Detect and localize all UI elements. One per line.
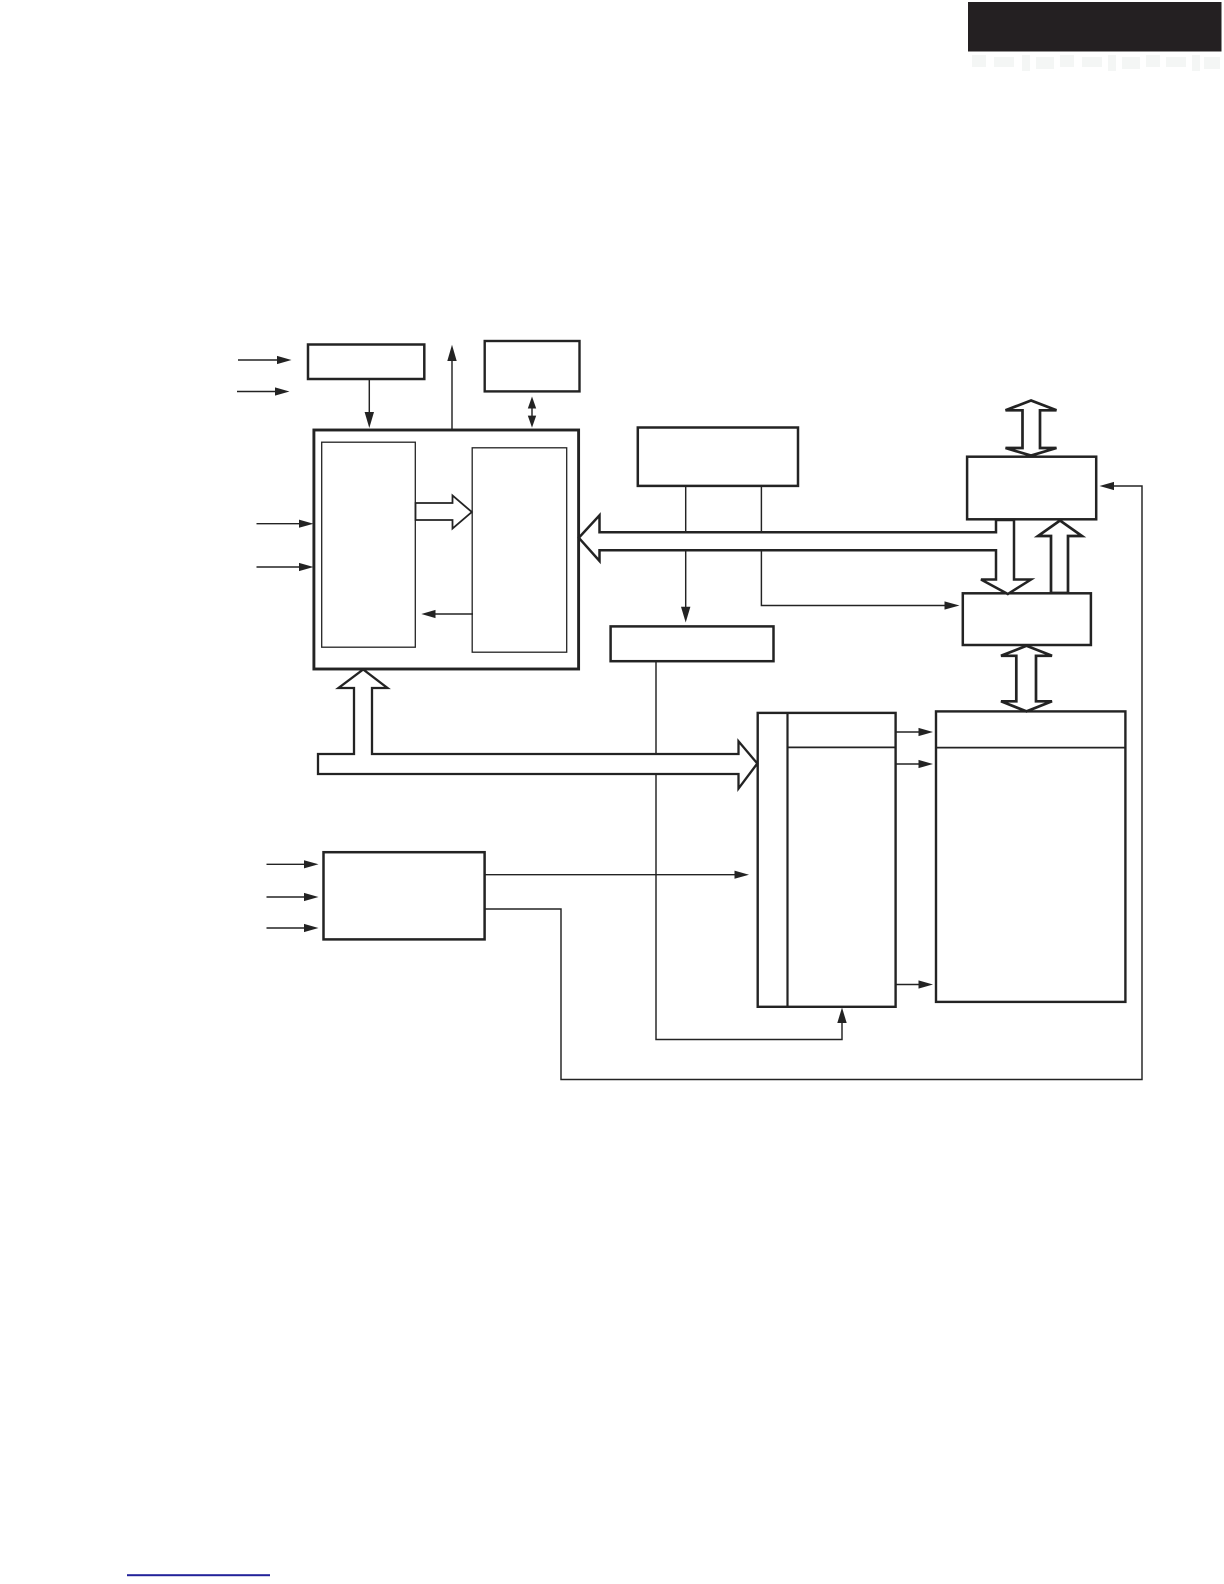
bus arrow upper (box C down to bus, left into big box) [579,515,1031,594]
arrowhead E to G 1 [919,728,934,736]
box E divider [786,713,788,1007]
wire loop from box M down around to box E bottom [656,661,842,1039]
wire inner arrow right box to left box [434,613,473,615]
inner box left [322,442,416,647]
wire input arrow 4 to big box [257,566,302,568]
arrowhead feedback into box C [1100,482,1115,490]
arrowhead double up (box B link) [528,397,536,409]
arrowhead box F to box E [735,871,750,879]
wire box A down to big box [368,379,370,413]
wire ROM line 1 down to box M [685,486,687,608]
wire box E to box G arrow 3 [896,984,921,986]
box C (top right) [967,457,1096,520]
box E (tall box bottom middle) [758,713,896,1007]
wire up out of big box top [451,361,453,430]
wire box F input 1 [267,863,307,865]
solid arrowheads [275,345,1114,1023]
wire box F input 3 [267,927,307,929]
wire box E to box G arrow 1 [896,731,921,733]
wire box F input 2 [267,896,307,898]
double block arrow above box C [1006,401,1057,456]
box E header line [788,746,896,748]
box B (top small box right of A) [485,341,580,391]
arrowhead box F input 3 [304,924,319,932]
wire box F output to box E [485,874,736,876]
box M (wide box under ROM) [611,626,774,661]
title block (black header bar) [968,2,1222,52]
wire double arrow between box B and big box [531,407,533,418]
box F (bottom left box) [324,852,485,939]
arrowhead down into big box from box A [365,412,374,428]
arrowhead up out of big box [447,345,456,361]
arrowhead input 1 box A [277,356,292,364]
double block arrow between box D and box G [1001,646,1052,712]
box A (top-left small box) [308,345,424,380]
arrowhead E to G 2 [919,760,934,768]
inner box right [472,448,567,652]
box D (mid right) [963,593,1091,645]
block arrow up from box D to box C [1038,521,1082,594]
arrowhead input 4 big box [299,563,314,571]
bus arrow lower (right into box E with up branch into big box) [318,670,757,789]
arrowhead loop up into box E bottom [837,1008,846,1024]
arrowhead inner left [421,610,435,618]
footer link line (blue) [127,1574,270,1576]
arrowhead E to G 3 [919,980,934,988]
box G (tall box bottom right) [936,711,1125,1002]
arrowhead box F input 1 [304,860,319,868]
wire input arrow 3 to big box [257,523,302,525]
arrowhead ROM line2 right into box D [945,601,960,609]
wire input arrow 2 below box A [237,391,277,393]
ghost caption under title block [972,55,1220,71]
arrowhead input 2 [275,387,290,395]
box G header line [936,747,1125,749]
small block arrow inside big box (left inner to right inner) [416,496,472,529]
wire ROM line 2 to box D [761,486,946,606]
arrowhead input 3 big box [299,520,314,528]
big box U1 (large outer box left) [314,430,579,669]
wire box E to box G arrow 2 [896,763,921,765]
wire loop from box F bottom right around to box C (feedback) [485,486,1142,1080]
arrowhead double down (box B link) [528,416,536,428]
wire input arrow 1 to box A [238,359,279,361]
arrowhead ROM line1 down into box M [681,607,690,623]
ROM box (center top) [638,428,798,486]
arrowhead box F input 2 [304,893,319,901]
